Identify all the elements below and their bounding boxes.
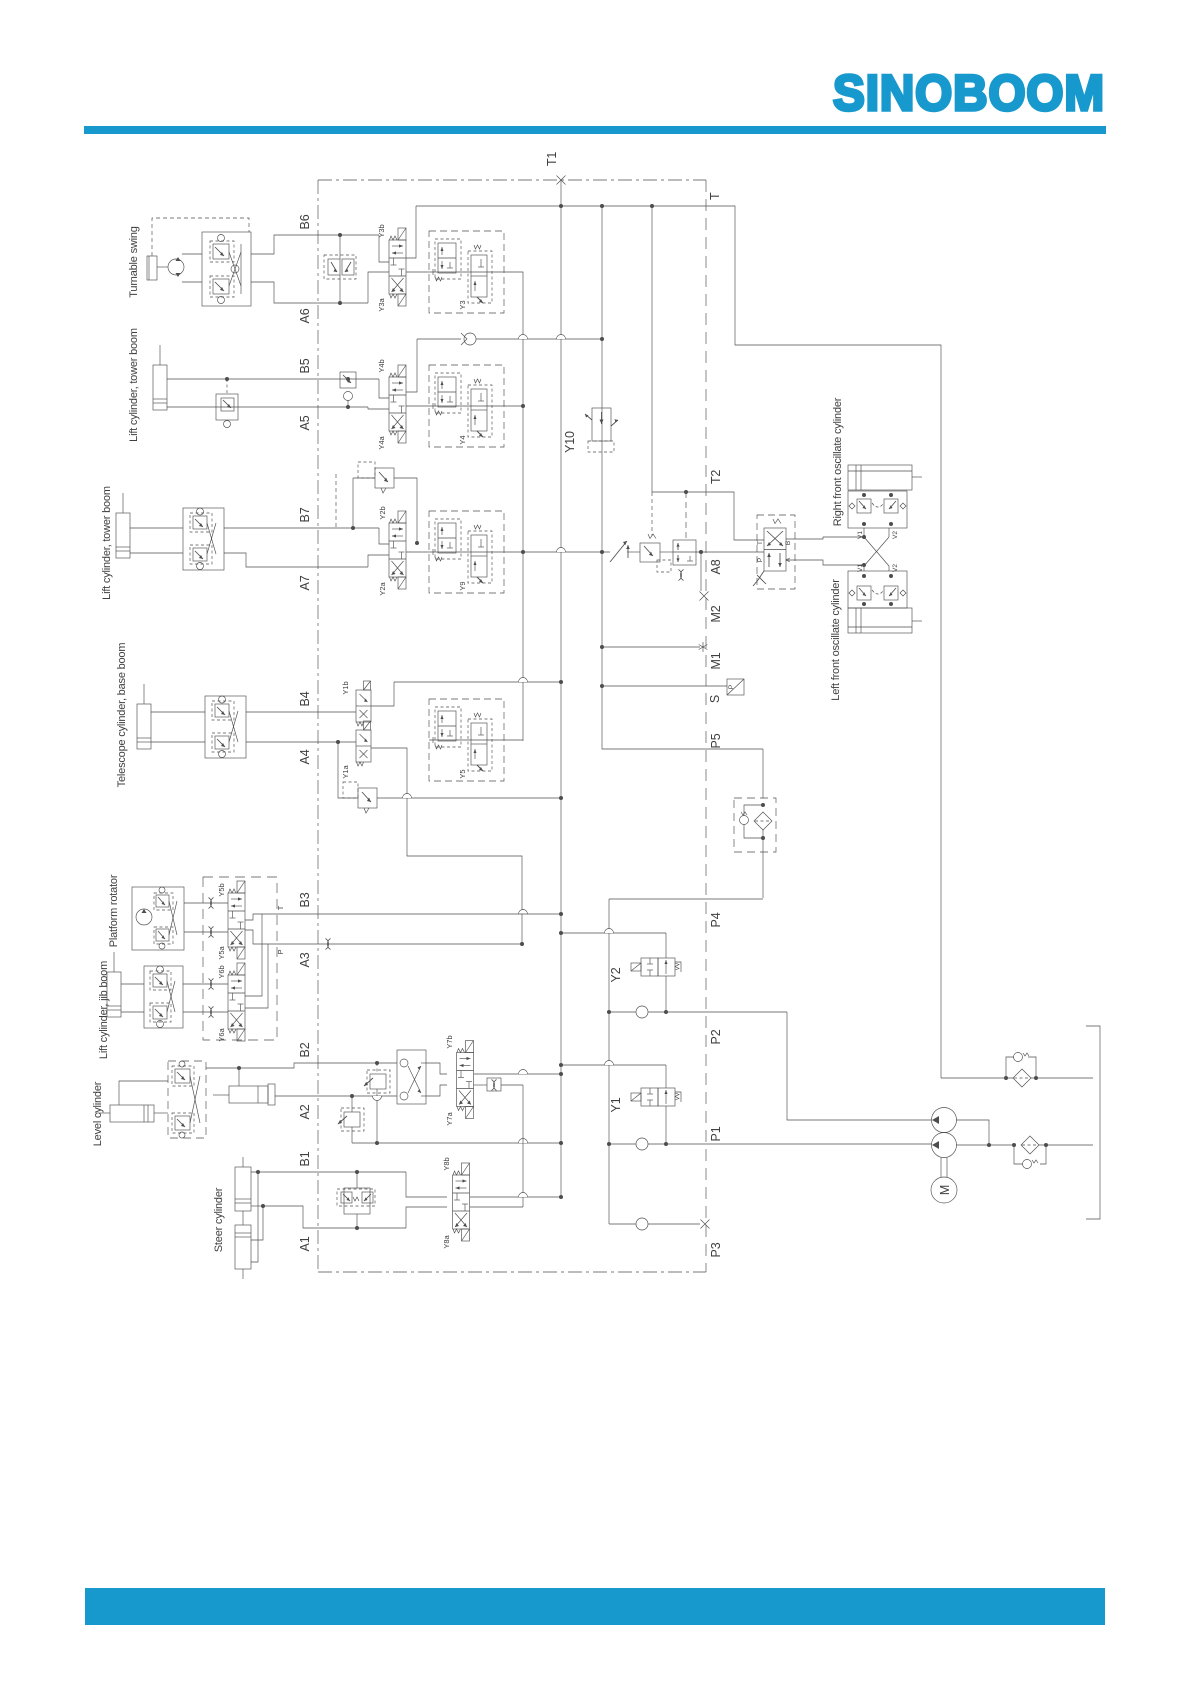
svg-text:Y9: Y9 (458, 581, 467, 590)
junction steer cross (261, 1204, 265, 1208)
hydraulic motor (swing) (168, 257, 184, 277)
svg-text:Y2: Y2 (609, 967, 623, 982)
svg-text:T2: T2 (709, 470, 723, 484)
svg-text:B7: B7 (298, 507, 312, 522)
svg-text:V2: V2 (892, 531, 899, 539)
wire jib A (121, 1011, 144, 1013)
junction T1/tank header (559, 204, 563, 208)
dual overcenter block steer (337, 1170, 375, 1230)
junction P2 Y2 (664, 1010, 668, 1014)
junction M1 P trunk (600, 645, 604, 649)
wire tank return header (416, 206, 941, 1078)
junction S P trunk (600, 684, 604, 688)
junction return/P trunk (600, 337, 604, 341)
relief valve on B2 (364, 1061, 390, 1143)
wire bank internal P2 (245, 944, 268, 1008)
svg-text:Y10: Y10 (563, 431, 577, 453)
wire check block to valve bottom (426, 1085, 447, 1096)
wire B1 line (251, 1171, 406, 1173)
junction A4 branch (336, 740, 340, 744)
wire B1 jog to valve (406, 1172, 447, 1197)
wire Y1a out riser (371, 748, 522, 944)
junction P trunk top (600, 204, 604, 208)
valve Y1 (pump1 unload) (631, 1088, 681, 1106)
pressure compensator main gallery (673, 490, 696, 581)
svg-text:B1: B1 (298, 1151, 312, 1166)
valve Y4a/Y4b (tower lift directional) (389, 365, 406, 443)
wire A1 line (263, 1206, 406, 1228)
svg-text:B3: B3 (298, 892, 312, 907)
svg-text:B2: B2 (298, 1042, 312, 1057)
wire P3 line (609, 1223, 636, 1225)
junction V1 top (862, 535, 866, 539)
port M1 marker (699, 642, 708, 652)
wire bank internal T2 (245, 914, 262, 996)
wire B6 line (251, 235, 379, 254)
junction Y1 feed T1 (559, 1063, 563, 1067)
junction M2 branch (699, 550, 703, 554)
wire valve tank riser (406, 339, 417, 392)
svg-text:Left front oscillate cylinder: Left front oscillate cylinder (830, 579, 842, 701)
svg-text:A2: A2 (298, 1104, 312, 1119)
counterbalance block level (crossed) (168, 1061, 206, 1138)
relief valve on A2 (338, 1094, 364, 1143)
port P3 marker (701, 1220, 710, 1229)
svg-text:P3: P3 (709, 1242, 723, 1257)
compensator block Y4 (429, 365, 504, 447)
wire Y1 to check (665, 1106, 667, 1144)
svg-text:Y3a: Y3a (377, 298, 386, 312)
valve Y3a/Y3b (swing directional) (389, 228, 406, 306)
counterbalance block jib (144, 966, 183, 1028)
wire pump2 suction line (956, 1144, 1014, 1146)
junction drains (375, 1141, 379, 1145)
svg-text:Y5b: Y5b (217, 883, 226, 896)
wire B7 line (130, 527, 183, 529)
junction drain gallery T1 (559, 1141, 563, 1145)
svg-text:P: P (728, 685, 735, 689)
svg-text:Y8b: Y8b (442, 1157, 451, 1170)
cross-port relief cluster B6/A6 (324, 233, 356, 305)
svg-text:Right front oscillate cylinder: Right front oscillate cylinder (832, 397, 844, 526)
svg-text:SINOBOOM: SINOBOOM (833, 65, 1105, 121)
svg-text:Y4: Y4 (458, 435, 467, 444)
orifice marker A3 (326, 939, 331, 950)
hop Y7 line over LS (519, 1070, 528, 1075)
electric motor M (931, 1157, 957, 1203)
svg-text:M1: M1 (709, 652, 723, 669)
svg-text:Y7a: Y7a (445, 1112, 454, 1126)
hop Y1a riser crossing (519, 910, 528, 915)
junction reducer line T1 (559, 796, 563, 800)
hop Y1 feed over P4 trunk (605, 1061, 614, 1066)
svg-text:P: P (757, 558, 764, 562)
wire V1 bottom stub (863, 565, 865, 571)
SINOBOOM logo (833, 65, 1105, 121)
wire A3 line (268, 943, 522, 945)
valve Y5a/Y5b (rotator) (228, 881, 245, 959)
relief/check on B5 (340, 372, 356, 409)
lift cylinder 2 (116, 493, 130, 558)
wire B4 from cylinder (151, 711, 205, 713)
svg-text:B5: B5 (298, 358, 312, 373)
svg-text:A8: A8 (709, 559, 723, 574)
hop relief drain over A2 (373, 1096, 382, 1101)
svg-text:A7: A7 (298, 575, 312, 590)
oscillate valve box right (848, 491, 907, 528)
svg-text:Y1a: Y1a (341, 765, 350, 779)
wire Y7 to T1 (474, 1073, 561, 1075)
svg-text:T1: T1 (545, 152, 559, 166)
valve Y8a/Y8b (steer directional) (453, 1163, 470, 1241)
hop Y8 line over LS (519, 1193, 528, 1198)
level cylinder (96, 1105, 154, 1122)
valve Y7a/Y7b (level directional) (457, 1041, 474, 1119)
wire level pilot up (119, 1081, 168, 1105)
wire B5 jog to valve (379, 379, 389, 398)
svg-text:B: B (785, 541, 792, 545)
orifice rotator A (209, 898, 214, 909)
pressure transducer S (727, 679, 744, 695)
check valve P3 (636, 1218, 648, 1230)
svg-text:P2: P2 (709, 1029, 723, 1044)
wire P1 line (609, 1143, 636, 1145)
manifold boundary top edge (318, 179, 706, 181)
slave cylinder (213, 1084, 275, 1105)
svg-text:Y5: Y5 (458, 769, 467, 778)
jib cylinder (107, 952, 121, 1017)
manifold boundary bottom edge (318, 1271, 706, 1273)
wire bank internal P (245, 930, 262, 944)
check valve P2 (636, 1006, 648, 1018)
compensator block Y9 (429, 511, 504, 593)
svg-text:P5: P5 (709, 733, 723, 748)
wire slave top stub (238, 1068, 240, 1086)
manifold boundary left edge (317, 180, 319, 1272)
wire P5 feed down to filter (762, 749, 764, 798)
check valve P1 (636, 1138, 648, 1150)
junction main/P trunk (600, 550, 604, 554)
pump 2 (lower) (932, 1133, 957, 1158)
hop return over LS riser (519, 335, 528, 340)
overcenter valve on A5 (216, 377, 238, 428)
svg-text:V1: V1 (857, 564, 864, 572)
wire valve to comp block Y9 (406, 551, 429, 553)
pressure reducing valve B7 pilot (351, 462, 417, 543)
wire valve tank riser to header (406, 206, 416, 258)
wire V2 bottom stub (888, 566, 890, 571)
wire jib B to bank (183, 983, 228, 985)
svg-text:Platform rotator: Platform rotator (108, 874, 120, 947)
wire Y2 to check (665, 976, 667, 1012)
wire A6 line (251, 282, 368, 303)
wire M2 branch (700, 552, 702, 591)
dual pilot check block (level) (397, 1050, 426, 1104)
wire A8 A to V1b (786, 560, 864, 565)
junction LS riser B5 (521, 404, 525, 408)
svg-text:Y3b: Y3b (377, 224, 386, 237)
lift cylinder 1 (153, 345, 167, 410)
svg-text:Y1b: Y1b (341, 681, 350, 694)
wire cyl1 bottom port (251, 1205, 263, 1207)
return filter (941, 1053, 1093, 1088)
wire rotator B (184, 931, 228, 933)
svg-text:A3: A3 (298, 952, 312, 967)
wire P2 to pump (787, 1012, 932, 1120)
valve Y6a/Y6b (jib) (228, 963, 245, 1041)
valve Y10 (unloader) (585, 408, 618, 452)
junction P1 Y1 (664, 1142, 668, 1146)
pilot line brake release (dashed) (152, 218, 249, 256)
wire jib/telescope gallery to T1 (394, 681, 561, 683)
steer cylinder 1 (235, 1157, 251, 1225)
orifice jib B (209, 979, 214, 990)
svg-text:B4: B4 (298, 691, 312, 706)
wire P4 line (609, 898, 763, 900)
junction P1/P4 trunk (607, 1142, 611, 1146)
wire level to CB block (154, 1112, 168, 1114)
filter assembly P5-P4 (734, 798, 776, 898)
wire A7 step line (224, 553, 368, 567)
compensator block Y5 (429, 699, 504, 781)
hop gallery over LS riser (519, 678, 528, 683)
svg-text:Y5a: Y5a (217, 946, 226, 960)
hop reducer line over riser (403, 794, 412, 799)
wire P trunk vertical (602, 206, 763, 749)
wire Y8 P from LS riser (470, 1206, 523, 1208)
hop drain gallery over LS (519, 1139, 528, 1144)
svg-text:Steer cylinder: Steer cylinder (213, 1187, 225, 1252)
wire cyl2 top cross link (251, 1206, 263, 1240)
wire comp Y9 to main gallery (504, 551, 610, 553)
junction Y1a riser on A3 (520, 942, 524, 946)
svg-text:P1: P1 (709, 1126, 723, 1141)
wire Y1b out riser (371, 682, 394, 706)
wire gallery to A8 port (696, 551, 764, 553)
svg-text:Y2b: Y2b (378, 506, 387, 519)
svg-text:Y7b: Y7b (445, 1035, 454, 1048)
junction main/LS riser (521, 550, 525, 554)
wire P2 line (609, 1011, 636, 1013)
wire LS riser corner (522, 739, 524, 741)
junction V1 bottom (862, 563, 866, 567)
wire A2 line (275, 1095, 397, 1097)
hop Y2 feed over P4 trunk (605, 929, 614, 934)
wire B2 line (206, 1063, 397, 1068)
junction Y7 line T1 (559, 1072, 563, 1076)
counterbalance valve block (turntable swing) (202, 232, 251, 306)
svg-text:T: T (276, 905, 285, 910)
wire comp block to LS riser (504, 272, 523, 739)
wire V2 top stub (888, 528, 890, 537)
wire B3 line (262, 913, 561, 915)
junction Y8 line T1 end (559, 1195, 563, 1199)
svg-text:A5: A5 (298, 415, 312, 430)
svg-text:Y6b: Y6b (217, 965, 226, 978)
suction filter (1012, 1136, 1093, 1169)
junction T2 riser top (650, 204, 654, 208)
svg-text:T: T (757, 541, 764, 545)
wire S line (602, 685, 727, 687)
orifice feed Y7 (474, 1078, 523, 1091)
port M2 marker (700, 592, 709, 601)
junction pilot riser on through line (415, 541, 419, 545)
svg-text:V2: V2 (892, 564, 899, 572)
steer cylinder 2 (235, 1225, 251, 1279)
junction suction (987, 1143, 991, 1147)
wire cyl2 bottom to B1 (251, 1172, 258, 1262)
wire jib B (121, 983, 144, 985)
valve bank dashed enclosure (203, 877, 277, 1040)
valve A8 (oscillate control) (753, 515, 795, 589)
right front oscillate cylinder (848, 465, 922, 490)
left front oscillate cylinder (848, 608, 922, 633)
svg-text:Y4a: Y4a (377, 436, 386, 450)
wire check block to valve top (426, 1063, 447, 1074)
svg-text:Y1: Y1 (609, 1097, 623, 1112)
wire B7 from CB block (224, 527, 379, 529)
valve Y1b (telescope select) (356, 681, 371, 726)
wire A4 from cylinder (151, 741, 205, 743)
wire A7 line (130, 552, 183, 554)
junction B3 T1 (559, 912, 563, 916)
svg-text:M: M (938, 1185, 952, 1195)
pump 1 (upper) (932, 1108, 957, 1133)
svg-text:A6: A6 (298, 308, 312, 323)
wire LS lower riser (522, 1085, 524, 1207)
wire cross diagonal 2 (864, 537, 889, 566)
check valve on return (461, 333, 476, 345)
valve Y1a (telescope select 2) (356, 721, 371, 766)
svg-text:P: P (276, 949, 285, 954)
wire valve to comp block Y4 (406, 405, 429, 407)
svg-text:Y3: Y3 (458, 300, 467, 309)
wire A6 jog to valve port (368, 272, 389, 303)
svg-text:Turnable swing: Turnable swing (128, 226, 140, 297)
junction gallery T1 (559, 680, 563, 684)
telescope cylinder (137, 684, 151, 749)
svg-text:B6: B6 (298, 214, 312, 229)
svg-text:P4: P4 (709, 912, 723, 927)
svg-text:M2: M2 (709, 605, 723, 622)
wire B7 jog to valve (379, 528, 389, 544)
wire cross diagonal 1 (864, 537, 889, 566)
svg-text:A: A (785, 557, 792, 562)
port T1 marker (557, 176, 566, 185)
junction B1 cyl2 branch (256, 1170, 260, 1174)
junction B2 slave stub (237, 1066, 241, 1070)
orifice rotator B (209, 927, 214, 938)
manifold boundary right edge (705, 180, 707, 1272)
wire M1 line (602, 646, 700, 648)
footer bar (85, 1588, 1105, 1625)
wire V1 top stub (863, 528, 865, 537)
pilot dashed line B7 (335, 474, 337, 528)
wire T1 trunk vertical (560, 180, 562, 1197)
svg-text:Y4b: Y4b (377, 359, 386, 372)
wire A8 B to V1 (786, 537, 864, 539)
wire B5 line (167, 378, 379, 380)
pilot dashed to relief (651, 492, 653, 536)
wire A5 jog to valve (368, 407, 389, 409)
valve Y2 (pump2 unload) (631, 958, 681, 976)
wire B4 to valve (246, 711, 356, 713)
svg-text:Y2a: Y2a (378, 582, 387, 596)
svg-text:S: S (708, 695, 722, 703)
wire brake to motor (157, 266, 168, 268)
svg-text:A4: A4 (298, 749, 312, 764)
wire Y2 feed riser (665, 933, 667, 958)
wire motor port B (182, 281, 202, 283)
tank bracket (1086, 1026, 1100, 1219)
wire jib A to bank (183, 1011, 228, 1013)
wire A1 jog to valve (406, 1207, 447, 1228)
wire relief drain gallery (352, 1142, 561, 1144)
counterbalance block B7 (183, 508, 224, 570)
wire B6 jog to valve port (379, 235, 389, 262)
svg-text:Telescope cylinder, base boom: Telescope cylinder, base boom (116, 643, 128, 788)
wire Y1 feed line (561, 1064, 666, 1066)
wire return line with check (417, 338, 461, 340)
svg-text:T: T (708, 192, 722, 200)
counterbalance block telescope (205, 696, 246, 758)
orifice jib A (209, 1007, 214, 1018)
header rule (84, 126, 1106, 134)
wire pump1 outlet to suction join (956, 1120, 989, 1145)
junction P2/P4 trunk (607, 1010, 611, 1014)
compensator block Y3 (429, 231, 504, 313)
svg-text:Level cylinder: Level cylinder (92, 1081, 104, 1146)
svg-text:Y8a: Y8a (442, 1235, 451, 1249)
wire A4 to valve (246, 741, 356, 743)
wire A7 jog to valve (368, 555, 389, 567)
relief valve main gallery (640, 534, 673, 572)
junction Y2 feed T1 (559, 931, 563, 935)
wire rotator A (184, 902, 228, 904)
svg-text:Y6a: Y6a (217, 1028, 226, 1042)
wire bank internal T (245, 914, 262, 920)
wire T2 riser (652, 206, 764, 540)
wire Y2 feed line (561, 932, 666, 934)
oscillate valve box left (848, 571, 907, 608)
variable flow control on main gallery (610, 541, 640, 562)
valve Y2a/Y2b (tower lift 2 directional) (389, 511, 406, 589)
wire motor port A (182, 253, 202, 255)
platform rotator motor block (132, 887, 184, 950)
wire P4 trunk down (608, 899, 610, 1224)
brake cylinder (147, 256, 157, 280)
wire valve to comp block (406, 271, 429, 273)
pressure reducing valve A4 branch (338, 742, 561, 813)
svg-text:Lift cylinder, tower boom: Lift cylinder, tower boom (101, 486, 113, 600)
wire A5 line (167, 406, 368, 408)
svg-text:A1: A1 (298, 1236, 312, 1251)
wire Y1 feed riser (665, 1065, 667, 1088)
wire Y8 to T1 (470, 1196, 561, 1198)
wire comp Y5 to LS riser (504, 739, 523, 741)
hop main over T1 (557, 548, 566, 553)
wire comp block Y4 to LS riser (504, 405, 523, 407)
hop return over T1 trunk (557, 335, 566, 340)
svg-text:Lift cylinder, tower boom: Lift cylinder, tower boom (128, 328, 140, 442)
